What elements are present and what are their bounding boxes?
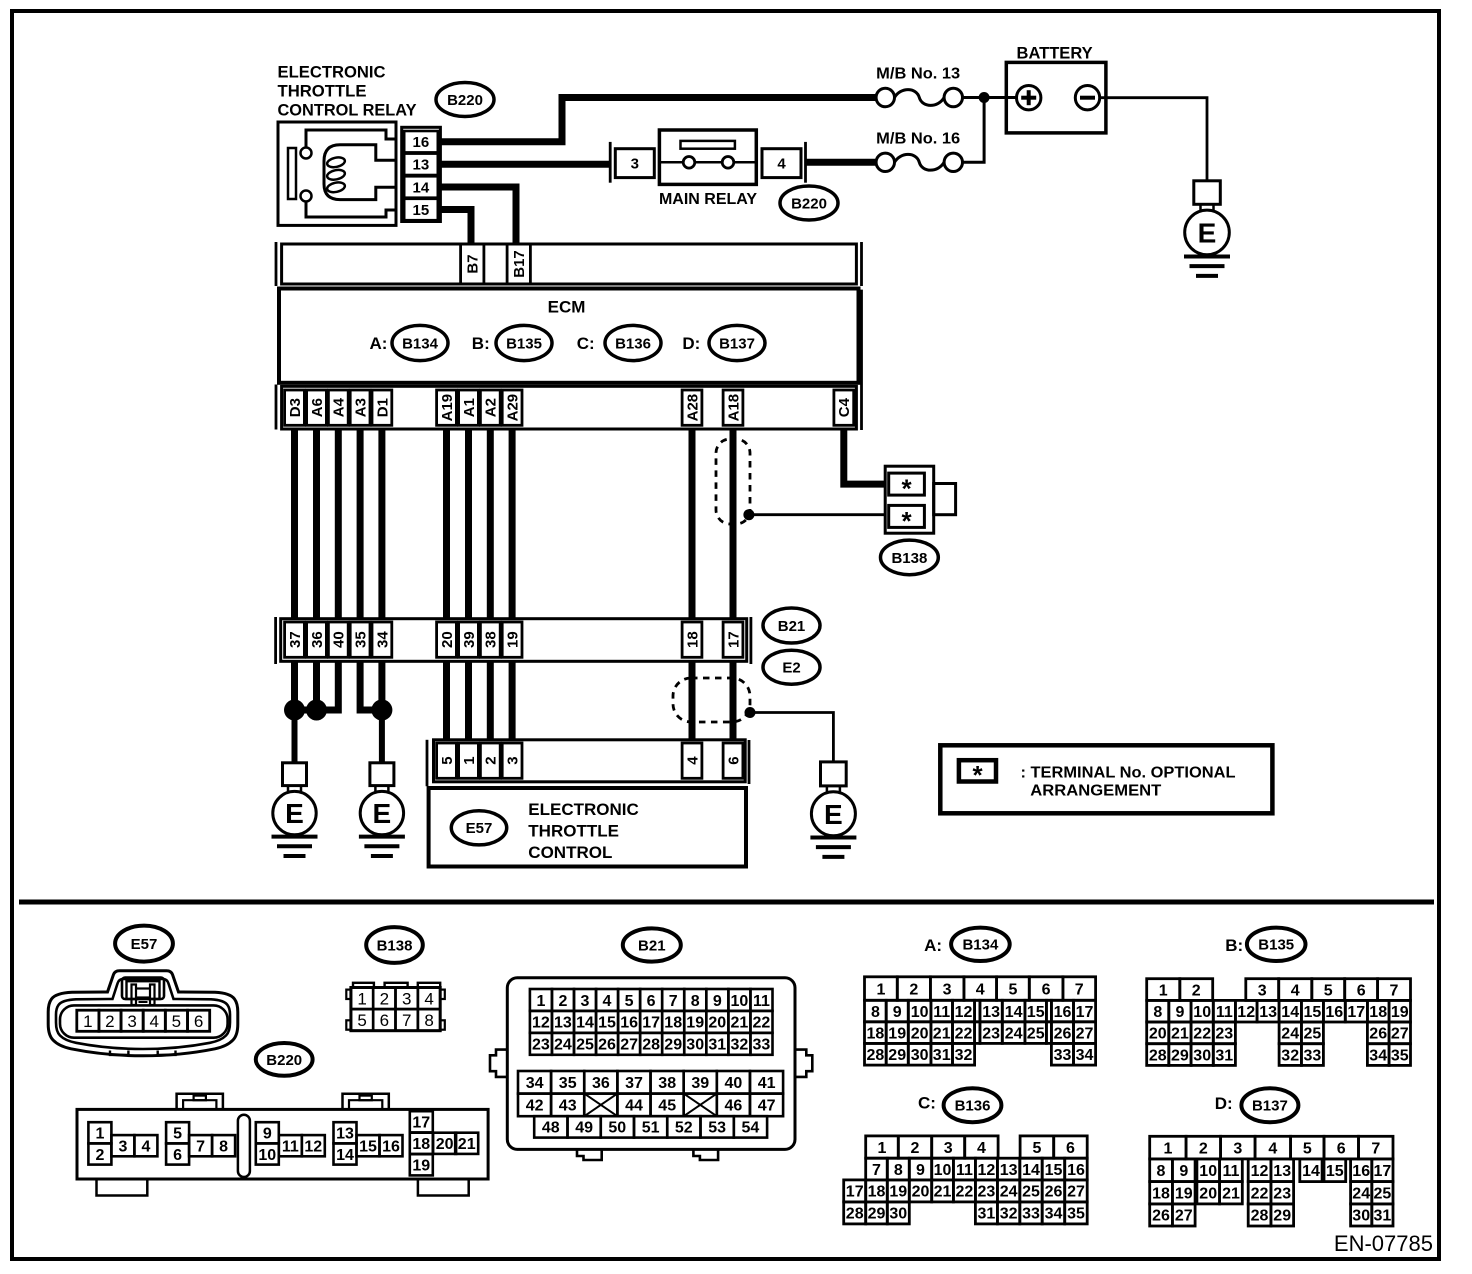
svg-text:A18: A18	[725, 394, 742, 422]
wire 35 to junction	[360, 661, 382, 710]
svg-text:CONTROL: CONTROL	[528, 843, 612, 862]
svg-text:27: 27	[1067, 1184, 1085, 1201]
svg-text:C:: C:	[918, 1093, 936, 1112]
svg-text:4: 4	[424, 989, 433, 1008]
svg-text:18: 18	[684, 631, 701, 648]
svg-text:3: 3	[504, 756, 521, 764]
svg-text:5: 5	[357, 1011, 366, 1030]
svg-text:23: 23	[982, 1025, 1000, 1042]
svg-text:4: 4	[1291, 982, 1300, 999]
svg-text:8: 8	[1157, 1163, 1166, 1180]
svg-text:A6: A6	[309, 398, 326, 417]
connector view label B138	[366, 927, 423, 963]
svg-text:16: 16	[1067, 1162, 1085, 1179]
ECM bottom connector row	[276, 290, 862, 430]
wire B21 39 down to E57	[465, 661, 472, 740]
svg-text:26: 26	[1045, 1184, 1063, 1201]
wire ECM A19 down	[443, 429, 450, 619]
wire ECM A4 down	[335, 429, 342, 619]
svg-text:ARRANGEMENT: ARRANGEMENT	[1030, 782, 1162, 799]
svg-text:18: 18	[867, 1025, 885, 1042]
svg-text:3: 3	[581, 993, 590, 1010]
wire ECM A28 down	[689, 429, 696, 619]
svg-text:BATTERY: BATTERY	[1017, 45, 1093, 63]
svg-text:47: 47	[758, 1098, 776, 1115]
svg-text:3: 3	[1233, 1140, 1242, 1157]
svg-text:20: 20	[708, 1015, 726, 1032]
svg-text:3: 3	[631, 156, 639, 173]
svg-text:28: 28	[1149, 1047, 1167, 1064]
svg-text:14: 14	[1281, 1004, 1299, 1021]
connector view B21 body	[490, 978, 812, 1160]
svg-text:EN-07785: EN-07785	[1334, 1231, 1433, 1256]
svg-text:34: 34	[1076, 1047, 1094, 1064]
connector label B138	[881, 540, 939, 575]
svg-text:1: 1	[357, 989, 366, 1008]
svg-text:31: 31	[708, 1037, 726, 1054]
svg-text:B:: B:	[472, 334, 490, 353]
svg-text:2: 2	[909, 981, 918, 998]
svg-text:18: 18	[1369, 1004, 1387, 1021]
svg-text:17: 17	[642, 1015, 660, 1032]
svg-text:22: 22	[955, 1025, 973, 1042]
svg-text:29: 29	[868, 1206, 886, 1223]
svg-text:2: 2	[95, 1147, 104, 1164]
svg-text:11: 11	[933, 1004, 950, 1021]
svg-text:17: 17	[412, 1115, 430, 1132]
svg-text:30: 30	[686, 1037, 704, 1054]
svg-text:20: 20	[439, 631, 456, 648]
svg-text:8: 8	[424, 1011, 433, 1030]
svg-text:21: 21	[933, 1025, 951, 1042]
svg-text:2: 2	[105, 1012, 114, 1031]
svg-text:23: 23	[978, 1184, 996, 1201]
E57 connector row	[427, 740, 749, 786]
svg-text:11: 11	[1216, 1004, 1233, 1021]
svg-text:3: 3	[118, 1139, 127, 1156]
svg-text:A:: A:	[924, 936, 942, 955]
svg-text:12: 12	[1251, 1163, 1269, 1180]
svg-text:35: 35	[1391, 1047, 1409, 1064]
svg-text:34: 34	[1045, 1206, 1063, 1223]
svg-text:16: 16	[382, 1139, 400, 1156]
section divider	[19, 900, 1434, 905]
connector label B135	[496, 325, 552, 360]
wire ECM D1 down	[378, 429, 385, 619]
connector label B21	[763, 608, 820, 643]
svg-text:35: 35	[559, 1075, 577, 1092]
svg-text:15: 15	[413, 202, 430, 219]
svg-text:3: 3	[1258, 982, 1267, 999]
svg-text:27: 27	[1076, 1025, 1094, 1042]
svg-text:31: 31	[1215, 1047, 1233, 1064]
svg-text:D:: D:	[682, 334, 700, 353]
ground E (battery)	[1184, 181, 1230, 276]
svg-text:20: 20	[1149, 1026, 1167, 1043]
svg-text:B136: B136	[955, 1098, 991, 1115]
svg-text:52: 52	[675, 1120, 693, 1137]
svg-text:ELECTRONIC: ELECTRONIC	[278, 64, 386, 82]
svg-text:1: 1	[876, 981, 885, 998]
wire fuse16 up to junction	[963, 98, 985, 163]
electronic throttle control box	[429, 788, 746, 867]
svg-text:28: 28	[867, 1047, 885, 1064]
svg-text:B220: B220	[791, 195, 827, 212]
svg-text:E2: E2	[782, 660, 800, 677]
svg-text:34: 34	[526, 1075, 544, 1092]
svg-text:*: *	[972, 760, 983, 790]
svg-text:23: 23	[532, 1037, 550, 1054]
svg-text:A29: A29	[504, 394, 521, 422]
svg-text:6: 6	[1042, 981, 1051, 998]
svg-text:21: 21	[934, 1184, 952, 1201]
svg-text:4: 4	[977, 1140, 986, 1157]
svg-text:22: 22	[956, 1184, 974, 1201]
svg-text:12: 12	[978, 1162, 996, 1179]
svg-text:MAIN RELAY: MAIN RELAY	[659, 191, 757, 208]
svg-text:16: 16	[1352, 1163, 1370, 1180]
svg-text:1: 1	[1163, 1140, 1172, 1157]
svg-text:*: *	[901, 474, 912, 504]
svg-text:31: 31	[978, 1206, 996, 1223]
svg-text:16: 16	[620, 1015, 638, 1032]
wire ECM D3 down	[291, 429, 298, 619]
svg-text:28: 28	[1251, 1208, 1269, 1225]
svg-text:17: 17	[1374, 1163, 1392, 1180]
connector label E2	[763, 650, 820, 684]
svg-text:7: 7	[402, 1011, 411, 1030]
connector label B220	[436, 83, 494, 117]
svg-text:C:: C:	[577, 334, 595, 353]
svg-text:4: 4	[777, 156, 786, 173]
svg-text:1: 1	[536, 993, 545, 1010]
wire ECM C4 to B138	[844, 429, 885, 484]
B21/E2 connector row	[276, 617, 751, 664]
svg-text:10: 10	[911, 1004, 929, 1021]
connector view label B21	[623, 928, 681, 961]
svg-text:41: 41	[758, 1075, 776, 1092]
svg-text:8: 8	[691, 993, 700, 1010]
svg-text:20: 20	[1199, 1186, 1217, 1203]
svg-text:9: 9	[916, 1162, 925, 1179]
svg-text:36: 36	[309, 631, 326, 648]
svg-text:5: 5	[1303, 1140, 1312, 1157]
wire B21 20 down to E57	[443, 661, 450, 740]
svg-text:D1: D1	[374, 398, 391, 417]
svg-text:6: 6	[1357, 982, 1366, 999]
ground E (sensor ground 1)	[272, 763, 318, 856]
svg-text:B21: B21	[638, 937, 666, 954]
svg-text:2: 2	[380, 989, 389, 1008]
connector view label B136	[944, 1088, 1002, 1122]
svg-text:22: 22	[1193, 1026, 1211, 1043]
svg-text:8: 8	[894, 1162, 903, 1179]
svg-text:D3: D3	[287, 398, 304, 417]
svg-text:4: 4	[1268, 1140, 1277, 1157]
svg-text:9: 9	[263, 1126, 272, 1143]
svg-text:14: 14	[576, 1015, 594, 1032]
svg-text:5: 5	[1324, 982, 1333, 999]
svg-text:19: 19	[888, 1025, 906, 1042]
wire B21 38 down to E57	[487, 661, 494, 740]
connector view B134 grid	[865, 977, 1096, 1065]
svg-text:15: 15	[1045, 1162, 1063, 1179]
connector label B220 (main relay)	[780, 186, 838, 220]
wire pin14 to ECM B17	[440, 187, 516, 244]
svg-text:19: 19	[686, 1015, 704, 1032]
wire battery minus to ground	[1100, 98, 1207, 181]
svg-text:20: 20	[436, 1136, 454, 1153]
svg-text:14: 14	[1302, 1163, 1320, 1180]
svg-text:37: 37	[287, 631, 304, 648]
svg-text:29: 29	[1273, 1208, 1291, 1225]
connector view E57 body	[48, 971, 238, 1056]
relay connector pin block pins 16 13 14 15	[402, 127, 441, 221]
svg-text:E: E	[1198, 218, 1217, 249]
svg-text:4: 4	[976, 981, 985, 998]
svg-text:2: 2	[911, 1140, 920, 1157]
svg-text:18: 18	[868, 1184, 886, 1201]
wire shield drain 2 to ground	[755, 713, 833, 763]
svg-text:A28: A28	[684, 394, 701, 422]
svg-text:THROTTLE: THROTTLE	[528, 822, 619, 841]
svg-text:ELECTRONIC: ELECTRONIC	[528, 800, 639, 819]
svg-text:3: 3	[127, 1012, 136, 1031]
svg-text:18: 18	[1152, 1186, 1170, 1203]
svg-text:1: 1	[461, 756, 478, 764]
svg-text:25: 25	[1027, 1025, 1045, 1042]
svg-text:34: 34	[1369, 1047, 1387, 1064]
svg-text:9: 9	[893, 1004, 902, 1021]
svg-text:E: E	[373, 798, 392, 829]
svg-text:38: 38	[483, 631, 500, 648]
connector view B138 body	[346, 983, 445, 1031]
svg-text:19: 19	[1391, 1004, 1409, 1021]
svg-text:13: 13	[1259, 1004, 1277, 1021]
svg-text:A2: A2	[483, 398, 500, 417]
svg-text:17: 17	[1347, 1004, 1365, 1021]
wire ECM A29 down	[509, 429, 516, 619]
svg-text:E: E	[824, 799, 843, 830]
connector B138 (terminal no. optional)	[885, 466, 955, 536]
svg-text:16: 16	[1325, 1004, 1343, 1021]
wire pin16 to fuse M/B No.13	[440, 98, 876, 142]
svg-text:19: 19	[504, 631, 521, 648]
svg-text:D:: D:	[1215, 1094, 1233, 1113]
svg-text:31: 31	[933, 1047, 951, 1064]
svg-text:6: 6	[194, 1012, 203, 1031]
svg-text:A3: A3	[353, 398, 370, 417]
node shield drain 2	[745, 707, 756, 718]
svg-text:39: 39	[691, 1075, 709, 1092]
svg-text:6: 6	[380, 1011, 389, 1030]
svg-text:53: 53	[708, 1120, 726, 1137]
junction link	[295, 707, 317, 714]
svg-text:7: 7	[669, 993, 678, 1010]
svg-text:7: 7	[872, 1162, 881, 1179]
svg-text:3: 3	[943, 981, 952, 998]
svg-text:27: 27	[1175, 1208, 1193, 1225]
svg-text:6: 6	[725, 756, 742, 764]
svg-text:30: 30	[911, 1047, 929, 1064]
wire to ground 1	[292, 710, 298, 763]
svg-text:21: 21	[1222, 1186, 1240, 1203]
svg-text:7: 7	[196, 1139, 205, 1156]
ECM box	[279, 289, 859, 383]
svg-text:14: 14	[413, 179, 430, 196]
battery	[1006, 45, 1106, 133]
wire ECM A3 down	[357, 429, 364, 619]
svg-text:18: 18	[412, 1136, 430, 1153]
svg-text:8: 8	[219, 1139, 228, 1156]
svg-text:E57: E57	[131, 936, 158, 953]
svg-text:15: 15	[1304, 1004, 1322, 1021]
svg-text:2: 2	[483, 756, 500, 764]
ground E (sensor ground 2)	[359, 763, 405, 856]
svg-text:23: 23	[1215, 1026, 1233, 1043]
svg-text:B:: B:	[1225, 936, 1243, 955]
svg-text:24: 24	[1352, 1186, 1370, 1203]
junction node 35/34	[371, 700, 392, 721]
node shield drain	[743, 509, 754, 520]
svg-text:10: 10	[258, 1147, 276, 1164]
svg-text:1: 1	[95, 1126, 104, 1143]
svg-text:40: 40	[331, 631, 348, 648]
svg-text:12: 12	[955, 1004, 973, 1021]
svg-text:B7: B7	[465, 254, 482, 273]
junction node	[979, 92, 990, 103]
svg-text:B138: B138	[891, 550, 927, 567]
svg-text:26: 26	[598, 1037, 616, 1054]
svg-text:9: 9	[713, 993, 722, 1010]
wire 40 to junction	[317, 661, 339, 710]
wire fuse13 to battery plus	[963, 96, 1017, 99]
svg-text:E: E	[285, 798, 304, 829]
svg-text:B138: B138	[377, 937, 413, 954]
svg-text:8: 8	[1153, 1004, 1162, 1021]
svg-text:A:: A:	[370, 334, 388, 353]
svg-text:18: 18	[664, 1015, 682, 1032]
svg-text:12: 12	[304, 1139, 322, 1156]
svg-text:12: 12	[532, 1015, 550, 1032]
svg-text:44: 44	[625, 1098, 643, 1115]
svg-text:28: 28	[846, 1206, 864, 1223]
wire ECM A18 down	[730, 429, 737, 619]
svg-text:33: 33	[753, 1037, 771, 1054]
svg-text:THROTTLE: THROTTLE	[278, 83, 367, 101]
svg-text:8: 8	[871, 1004, 880, 1021]
svg-text:22: 22	[1251, 1186, 1269, 1203]
svg-text:B220: B220	[447, 92, 483, 109]
svg-text:19: 19	[412, 1158, 430, 1175]
svg-text:32: 32	[1000, 1206, 1018, 1223]
svg-text:28: 28	[642, 1037, 660, 1054]
svg-text:3: 3	[402, 989, 411, 1008]
svg-text:2: 2	[1199, 1140, 1208, 1157]
svg-text:B135: B135	[1258, 937, 1294, 954]
svg-text:35: 35	[353, 631, 370, 648]
relay K1 ELECTRONIC THROTTLE CONTROL RELAY	[278, 122, 396, 225]
svg-text:17: 17	[1076, 1004, 1094, 1021]
wire pin13 to main relay pin3	[440, 161, 610, 168]
connector view label B137	[1241, 1088, 1298, 1122]
wire ECM A1 down	[465, 429, 472, 619]
svg-text:12: 12	[1237, 1004, 1255, 1021]
svg-text:26: 26	[1054, 1025, 1072, 1042]
svg-text:10: 10	[731, 993, 749, 1010]
wire pin15 to ECM B7	[440, 210, 471, 245]
svg-text:4: 4	[141, 1139, 150, 1156]
svg-text:13: 13	[1000, 1162, 1018, 1179]
svg-text:13: 13	[1273, 1163, 1291, 1180]
svg-text:6: 6	[1066, 1140, 1075, 1157]
connector view label B135	[1247, 928, 1306, 961]
svg-text:B17: B17	[511, 250, 528, 278]
svg-text:48: 48	[542, 1120, 560, 1137]
svg-text:5: 5	[172, 1012, 181, 1031]
svg-text:33: 33	[1022, 1206, 1040, 1223]
svg-text:3: 3	[944, 1140, 953, 1157]
svg-text:6: 6	[173, 1147, 182, 1164]
svg-text:ECM: ECM	[548, 298, 586, 317]
svg-text:15: 15	[359, 1139, 377, 1156]
svg-text:15: 15	[1027, 1004, 1045, 1021]
svg-text:10: 10	[1193, 1004, 1211, 1021]
svg-text:24: 24	[1281, 1026, 1299, 1043]
wire ECM A2 down	[487, 429, 494, 619]
svg-text:30: 30	[1193, 1047, 1211, 1064]
svg-text:5: 5	[173, 1126, 182, 1143]
svg-text:7: 7	[1390, 982, 1399, 999]
shielded cable (A18 wire)	[716, 439, 750, 524]
svg-text:21: 21	[458, 1136, 476, 1153]
svg-text:13: 13	[554, 1015, 572, 1032]
connector view label B220	[256, 1043, 313, 1076]
svg-text:26: 26	[1369, 1026, 1387, 1043]
svg-text:5: 5	[439, 756, 456, 764]
svg-text:30: 30	[1352, 1208, 1370, 1225]
svg-text:13: 13	[336, 1126, 354, 1143]
svg-text:11: 11	[1223, 1163, 1240, 1180]
svg-text:2: 2	[558, 993, 567, 1010]
ground E (shield)	[810, 762, 856, 857]
svg-text:7: 7	[1075, 981, 1084, 998]
svg-text:2: 2	[1192, 982, 1201, 999]
svg-text:21: 21	[731, 1015, 749, 1032]
svg-text:B134: B134	[962, 937, 999, 954]
svg-text:36: 36	[592, 1075, 610, 1092]
svg-text:7: 7	[1371, 1140, 1380, 1157]
wire 37 down	[291, 661, 298, 710]
wire B21 18 down to E57	[689, 661, 696, 740]
legend: terminal no. optional arrangement	[940, 745, 1272, 813]
svg-text:11: 11	[956, 1162, 973, 1179]
svg-text:1: 1	[83, 1012, 92, 1031]
svg-text:27: 27	[1391, 1026, 1409, 1043]
svg-text:5: 5	[1032, 1140, 1041, 1157]
svg-text:B136: B136	[615, 335, 651, 352]
svg-text:29: 29	[888, 1047, 906, 1064]
svg-text:B137: B137	[719, 335, 755, 352]
svg-text:*: *	[901, 506, 912, 536]
svg-text:15: 15	[1326, 1163, 1344, 1180]
svg-text:16: 16	[413, 134, 430, 151]
svg-text:B137: B137	[1252, 1098, 1288, 1115]
electronic throttle control relay label	[278, 64, 417, 120]
svg-text:49: 49	[575, 1120, 593, 1137]
svg-text:E57: E57	[466, 820, 493, 837]
svg-text:32: 32	[1281, 1047, 1299, 1064]
